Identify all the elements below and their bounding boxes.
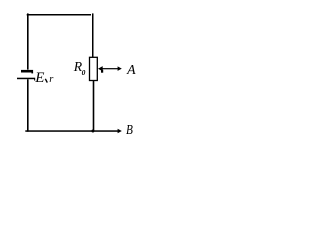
battery E positive plate (long thin) bbox=[17, 78, 35, 81]
svg-text:B: B bbox=[126, 122, 133, 137]
svg-text:A: A bbox=[126, 62, 136, 77]
wire top horizontal bbox=[27, 14, 91, 16]
wire right vertical lower bbox=[93, 81, 95, 132]
slider arrowhead left (at resistor) bbox=[98, 66, 103, 71]
svg-text:r: r bbox=[49, 74, 54, 85]
svg-text:0: 0 bbox=[82, 68, 86, 77]
wire right vertical upper bbox=[92, 13, 94, 57]
arrowhead toward B bbox=[118, 129, 122, 134]
battery E negative plate (short thick) bbox=[21, 70, 33, 74]
wire left vertical lower bbox=[27, 79, 29, 131]
label ideographic comma bbox=[45, 79, 47, 83]
junction node dot bbox=[91, 130, 94, 133]
slider arrow shaft bbox=[101, 68, 119, 69]
svg-text:E: E bbox=[34, 70, 44, 86]
slider contact blob bbox=[101, 70, 103, 73]
wire bottom horizontal bbox=[25, 130, 118, 132]
arrowhead right (toward A) bbox=[118, 66, 122, 71]
resistor R0 box bbox=[90, 57, 98, 80]
wire left vertical upper bbox=[27, 13, 29, 69]
